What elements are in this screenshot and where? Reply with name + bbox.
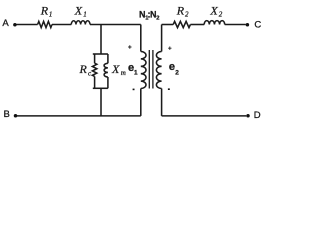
- resistor R1: [38, 21, 52, 27]
- svg-text:2: 2: [185, 11, 189, 19]
- wire secondary to R2: [162, 24, 174, 26]
- wire secondary top stub: [161, 25, 163, 52]
- svg-text:B: B: [4, 109, 10, 120]
- resistor Rc: [92, 63, 96, 76]
- wire shunt top bar: [93, 53, 108, 55]
- wire Xm branch top: [107, 54, 109, 63]
- wire X2 to C: [225, 24, 246, 26]
- wire bottom right secondary to D: [162, 115, 247, 117]
- svg-text:R: R: [176, 4, 185, 18]
- svg-text:X: X: [111, 62, 120, 76]
- svg-text:X: X: [74, 3, 83, 17]
- svg-text:R: R: [40, 4, 49, 18]
- transformer core line left: [148, 50, 150, 89]
- polarity plus e2: [168, 47, 171, 50]
- terminal dot D: [246, 114, 250, 118]
- inductor Xm: [104, 63, 108, 77]
- transformer core line right: [152, 50, 154, 89]
- wire A to R1: [17, 24, 38, 26]
- svg-text:2: 2: [219, 10, 223, 18]
- inductor X1: [71, 21, 90, 25]
- svg-text:C: C: [254, 19, 261, 30]
- minus mark e1: [133, 89, 135, 91]
- terminal dot A: [13, 23, 17, 27]
- svg-text:1: 1: [83, 10, 87, 18]
- wire shunt bottom bar: [93, 87, 108, 89]
- resistor R2: [173, 21, 190, 27]
- svg-text:2: 2: [156, 16, 159, 22]
- minus mark e2: [168, 88, 170, 90]
- wire Xm branch bottom: [107, 77, 109, 88]
- wire shunt bottom stub: [100, 88, 102, 116]
- wire secondary bottom stub: [161, 89, 163, 116]
- svg-text:2: 2: [175, 69, 179, 76]
- svg-text:X: X: [209, 3, 218, 17]
- svg-text:R: R: [79, 62, 88, 76]
- transformer secondary winding e2: [156, 52, 161, 89]
- wire primary top stub: [140, 25, 142, 52]
- wire shunt junction stub: [100, 25, 102, 55]
- inductor X2: [204, 21, 225, 25]
- wire R2 to X2: [190, 24, 204, 26]
- terminal dot C: [246, 23, 250, 27]
- wire primary bottom stub: [140, 89, 142, 116]
- svg-text:D: D: [254, 110, 261, 121]
- svg-text:A: A: [2, 18, 9, 29]
- wire Rc branch bottom: [94, 76, 96, 88]
- svg-text:1: 1: [134, 69, 138, 76]
- svg-text:1: 1: [49, 11, 53, 19]
- wire bottom left B to primary: [17, 115, 141, 117]
- wire X1 to primary, passing node: [90, 24, 141, 26]
- svg-text:m: m: [121, 69, 126, 77]
- svg-text:e: e: [169, 61, 175, 73]
- terminal dot B: [14, 114, 18, 118]
- wire R1 to X1: [52, 24, 71, 26]
- wire Rc branch top: [94, 54, 96, 63]
- transformer primary winding e1: [141, 52, 146, 89]
- polarity plus e1: [128, 45, 131, 48]
